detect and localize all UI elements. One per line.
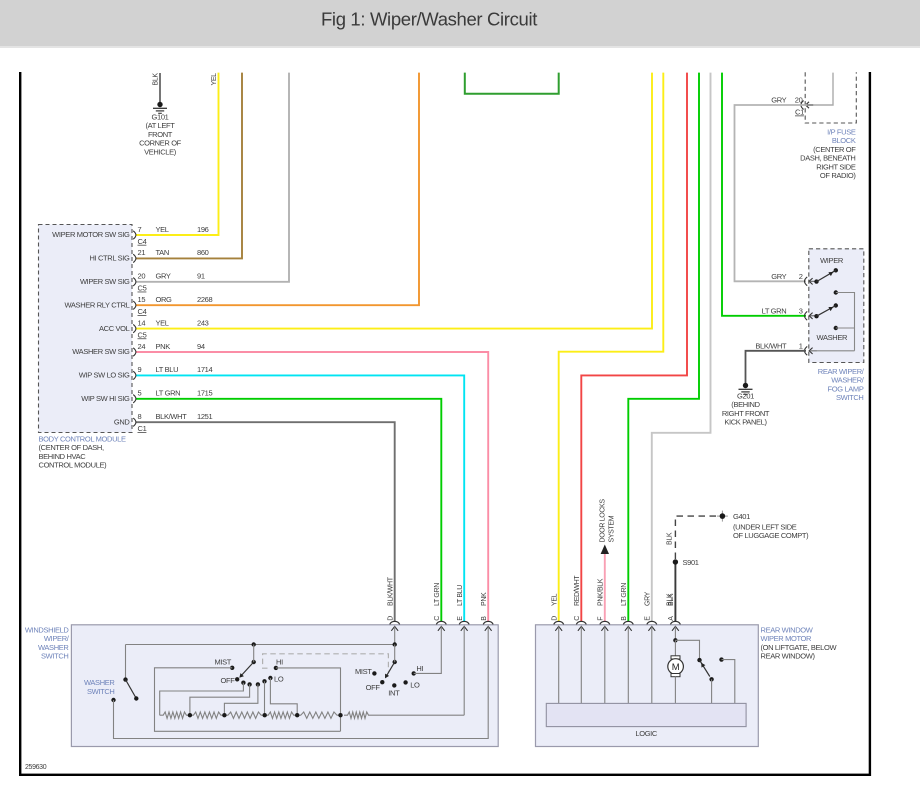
svg-text:E: E [645,616,652,621]
wire GRY inside fuse block [807,73,833,105]
svg-text:G201: G201 [737,392,754,401]
svg-text:BLK: BLK [153,73,160,86]
wire BLK (motor A) [674,562,676,621]
svg-text:WASHER SW SIG: WASHER SW SIG [72,347,130,356]
svg-text:S901: S901 [683,558,699,567]
label BLK [153,73,160,86]
svg-text:3: 3 [799,306,803,315]
wire int contact 2 [190,684,250,715]
svg-text:OFF: OFF [366,683,381,692]
I/P fuse block box [805,72,856,123]
svg-text:PNK: PNK [156,342,171,351]
door locks arrow [601,545,609,555]
label G401 [733,512,809,540]
label BODY CONTROL MODULE [39,435,126,470]
label BLK vertical upper [667,532,674,545]
svg-text:BLK/WHT: BLK/WHT [156,412,188,421]
wire YEL 243 [136,73,652,329]
BCM pin 24 WASHER SW SIG [72,342,205,356]
left switch arm [239,645,256,678]
svg-text:24: 24 [138,342,146,351]
wire chain to pin E [463,626,465,715]
svg-text:INT: INT [388,688,400,697]
svg-text:GRY: GRY [156,272,171,281]
svg-text:OF RADIO): OF RADIO) [820,171,856,180]
ground G201 [739,383,753,395]
motor box pin A [668,593,680,631]
svg-text:7: 7 [138,225,142,234]
svg-text:BEHIND HVAC: BEHIND HVAC [39,452,87,461]
svg-text:MIST: MIST [355,667,372,676]
label WASHER SWITCH [84,678,115,696]
rear switch pin 3 [805,311,817,320]
wire ORG 2268 [136,73,419,306]
svg-text:LT GRN: LT GRN [621,583,628,606]
svg-text:WASHER: WASHER [817,333,848,342]
label I/P FUSE BLOCK [800,128,856,181]
svg-text:OFF: OFF [221,676,236,685]
wire LO contact [270,678,297,715]
rear switch box [809,249,864,363]
svg-text:ORG: ORG [156,295,173,304]
svg-text:LT GRN: LT GRN [156,389,181,398]
resistor R3 [224,712,264,718]
svg-text:(UNDER LEFT SIDE: (UNDER LEFT SIDE [733,523,797,532]
svg-text:C1: C1 [138,424,147,433]
svg-text:ACC VOL: ACC VOL [99,324,130,333]
windshield box pin D [388,576,400,631]
label DOOR LOCKS SYSTEM [600,499,616,543]
label WINDSHIELD WIPER/WASHER SWITCH [25,626,70,661]
label REAR WINDOW WIPER MOTOR [761,626,838,661]
svg-text:B: B [621,616,628,621]
header bar [0,0,920,48]
svg-text:14: 14 [138,318,146,327]
svg-text:2: 2 [799,272,803,281]
wire HI to resistor chain [276,668,341,731]
connector stub (green) [465,73,559,94]
svg-text:SWITCH: SWITCH [87,687,114,696]
motor internal wire pin B [627,626,629,703]
resistor R2 [190,712,225,718]
windshield box pin B [481,592,493,631]
wire int contact 3 [224,684,258,715]
LO contact right [403,680,420,690]
svg-text:WIPER SW SIG: WIPER SW SIG [80,277,130,286]
svg-text:HI: HI [416,664,423,673]
label WASHER [817,333,848,342]
svg-text:M: M [672,662,680,673]
svg-text:G401: G401 [733,512,750,521]
svg-text:1: 1 [799,341,803,350]
motor internal wire pin C [580,626,582,703]
svg-text:(ON LIFTGATE, BELOW: (ON LIFTGATE, BELOW [761,643,838,652]
svg-text:RED/WHT: RED/WHT [574,575,581,606]
label GRY 20 C1 [771,96,804,117]
svg-text:860: 860 [197,248,209,257]
svg-text:REAR WINDOW: REAR WINDOW [761,626,814,635]
ground G101 [153,102,167,114]
wire YEL 196 [136,73,219,235]
BCM pin 14 ACC VOL [99,318,209,339]
svg-text:LOGIC: LOGIC [635,729,658,738]
svg-text:15: 15 [138,295,146,304]
mechanical link (dashed) [263,654,389,672]
park switch arm [700,660,714,681]
wire BLK to G101 [159,73,161,104]
body control module box [39,225,133,433]
motor internal wire pin F [604,626,606,703]
logic block [546,703,746,738]
svg-text:LT GRN: LT GRN [434,583,441,606]
svg-text:OF LUGGAGE COMPT): OF LUGGAGE COMPT) [733,531,809,540]
svg-text:YEL: YEL [211,73,218,86]
svg-text:LO: LO [274,675,284,684]
label LT GRN 3 [762,306,803,315]
svg-text:REAR WINDOW): REAR WINDOW) [761,652,816,661]
washer switch [123,677,138,700]
svg-text:1715: 1715 [197,389,212,398]
wiper switch contacts [814,268,838,284]
OFF contact left [221,676,240,685]
washer upper contact [834,290,855,351]
wire GRY 91 [136,73,289,282]
svg-text:E: E [457,616,464,621]
motor internal wire pin E [651,626,653,703]
svg-text:CORNER OF: CORNER OF [139,139,182,148]
svg-text:(CENTER OF: (CENTER OF [813,145,856,154]
BCM pin 7 WIPER MOTOR SW SIG [52,225,208,246]
svg-text:FRONT: FRONT [148,130,173,139]
svg-text:B: B [481,616,488,621]
svg-text:GRY: GRY [771,272,786,281]
park switch alt contact [719,657,735,703]
wire LT GRN to rear switch pin 3 [722,73,806,316]
windshield box pin E [457,585,469,631]
BCM pin 9 WIP SW LO SIG [79,365,213,379]
svg-text:MIST: MIST [214,658,231,667]
svg-text:2268: 2268 [197,295,212,304]
wire BLK dashed to G401 [675,516,719,559]
svg-text:BLOCK: BLOCK [832,136,856,145]
figure number 259630 [25,764,47,771]
svg-text:KICK PANEL): KICK PANEL) [724,418,767,427]
svg-text:BODY CONTROL MODULE: BODY CONTROL MODULE [39,435,126,444]
svg-text:BLK/WHT: BLK/WHT [755,341,787,350]
svg-text:C: C [574,616,581,621]
svg-text:D: D [552,616,559,621]
washer switch pivot wire [125,645,127,680]
svg-text:259630: 259630 [25,764,47,771]
wire HI right to pin C [414,626,442,673]
wire int contact 1 [160,683,244,716]
rail wire from pin D [126,626,395,644]
svg-text:TAN: TAN [156,248,169,257]
svg-text:WINDSHIELD: WINDSHIELD [25,626,70,635]
svg-text:LT GRN: LT GRN [762,306,787,315]
motor box pin E [645,591,657,630]
wire LT GRN 1715 [136,399,441,621]
svg-text:YEL: YEL [552,593,559,606]
wire inside switch pin1 [810,350,855,352]
svg-text:BLK: BLK [668,593,675,606]
label GRY 2 [771,272,803,281]
svg-text:WIP SW HI SIG: WIP SW HI SIG [81,394,130,403]
wire LT GRN (motor B) [628,73,699,622]
svg-text:C4: C4 [138,237,147,246]
windshield switch box [71,625,498,747]
svg-text:PNK: PNK [481,592,488,606]
HI contact right [412,664,424,676]
svg-text:94: 94 [197,342,205,351]
svg-text:FOG LAMP: FOG LAMP [828,384,864,393]
wire GRY (motor E) [652,73,711,622]
svg-text:196: 196 [197,225,209,234]
svg-text:8: 8 [138,412,142,421]
svg-text:GRY: GRY [645,591,652,606]
svg-text:WASHER/: WASHER/ [831,376,865,385]
wire LT BLU 1714 [136,375,464,621]
BCM pin 20 WIPER SW SIG [80,272,205,293]
washer contact wire to pin B [111,626,488,738]
svg-text:RIGHT SIDE: RIGHT SIDE [816,162,856,171]
svg-text:20: 20 [138,272,146,281]
svg-text:WASHER: WASHER [38,643,69,652]
svg-text:20: 20 [795,96,803,105]
motor internal wire pin D [558,626,560,703]
svg-text:REAR WIPER/: REAR WIPER/ [818,367,865,376]
svg-text:YEL: YEL [156,318,169,327]
HI contact left [274,658,283,671]
svg-text:DOOR LOCKS: DOOR LOCKS [600,499,607,543]
INT contact [388,683,400,697]
svg-text:YEL: YEL [156,225,169,234]
label BLK/WHT 1 [755,341,802,350]
wire GRY fuse to rear switch pin 2 [735,105,808,281]
MIST contact right [355,667,377,676]
svg-text:RIGHT FRONT: RIGHT FRONT [722,409,770,418]
svg-text:C: C [434,616,441,621]
svg-text:WIP SW LO SIG: WIP SW LO SIG [79,371,130,380]
label WIPER [820,256,844,265]
motor box pin F [598,578,610,631]
svg-text:HI CTRL SIG: HI CTRL SIG [89,254,130,263]
svg-text:(AT LEFT: (AT LEFT [145,121,175,130]
wire BLK/WHT to G201 [746,351,807,384]
svg-text:(CENTER OF DASH,: (CENTER OF DASH, [39,443,105,452]
svg-text:1251: 1251 [197,412,212,421]
LO contact left [268,675,284,684]
wire to park switch [675,640,701,662]
svg-text:21: 21 [138,248,146,257]
motor box pin B [621,583,633,631]
svg-text:BLK/WHT: BLK/WHT [388,576,395,606]
resistor R6 [344,712,464,718]
svg-text:A: A [668,616,675,621]
BCM pin 21 HI CTRL SIG [89,248,208,262]
MIST contact left [214,658,234,671]
windshield box pin C [434,583,446,631]
splice S901 [673,558,699,567]
fuse block pin C1 connector [801,101,813,110]
svg-text:9: 9 [138,365,142,374]
washer lower contact [834,326,855,330]
BCM pin 8 GND [114,412,213,433]
svg-text:PNK/BLK: PNK/BLK [598,578,605,606]
svg-text:WIPER/: WIPER/ [44,634,70,643]
washer switch contacts [814,303,838,318]
motor box pin C [574,575,586,631]
svg-text:VEHICLE): VEHICLE) [144,147,177,156]
svg-text:CONTROL MODULE): CONTROL MODULE) [39,461,108,470]
svg-text:1714: 1714 [197,365,212,374]
label BLK vertical lower [667,593,674,606]
svg-text:SWITCH: SWITCH [836,393,863,402]
label G201 [722,392,770,427]
svg-text:C1: C1 [795,108,804,117]
svg-text:C5: C5 [138,284,147,293]
right switch arm [385,645,397,679]
svg-text:WIPER MOTOR: WIPER MOTOR [761,634,813,643]
svg-text:LO: LO [410,681,420,690]
rear switch pin 2 [805,277,817,286]
resistor R1 [160,712,190,718]
svg-text:LT BLU: LT BLU [156,365,179,374]
wire int contact 4 [264,681,266,715]
svg-text:WIPER MOTOR SW SIG: WIPER MOTOR SW SIG [52,230,130,239]
OFF contact right [366,680,385,692]
svg-text:GND: GND [114,417,131,426]
svg-text:HI: HI [276,658,283,667]
svg-text:BLK: BLK [667,532,674,545]
svg-text:91: 91 [197,272,205,281]
BCM pin 15 WASHER RLY CTRL [64,295,212,316]
wire BLK/WHT 1251 [136,422,395,621]
svg-text:5: 5 [138,389,142,398]
motor pin A wire [673,626,677,642]
svg-text:G101: G101 [152,113,169,122]
motor box pin D [552,593,564,630]
resistor chain junction dots [188,713,343,717]
svg-text:GRY: GRY [771,96,786,105]
svg-text:F: F [598,617,605,621]
svg-text:WASHER RLY CTRL: WASHER RLY CTRL [64,300,129,309]
svg-text:D: D [388,616,395,621]
svg-text:C4: C4 [138,307,147,316]
rear motor box [536,625,759,747]
svg-text:SYSTEM: SYSTEM [609,515,616,542]
label REAR WIPER SWITCH [818,367,865,402]
resistor R5 [297,712,340,718]
resistor R4 [265,712,298,718]
svg-text:WASHER: WASHER [84,678,115,687]
wire MIST loop [155,668,341,732]
wire TAN 860 [136,73,242,259]
svg-text:C5: C5 [138,330,147,339]
junction dots on rail [252,642,397,646]
wire RED/WHT (motor C) [581,73,687,622]
rear switch pin 1 [805,346,817,355]
wire PNK 94 [136,352,488,621]
svg-text:243: 243 [197,318,209,327]
wire YEL (motor D) [559,73,664,622]
intermittent contacts [241,679,266,687]
svg-text:(BEHIND: (BEHIND [731,400,760,409]
svg-text:Fig 1: Wiper/Washer Circuit: Fig 1: Wiper/Washer Circuit [321,9,537,30]
svg-text:LT BLU: LT BLU [457,585,464,606]
BCM pin 5 WIP SW HI SIG [81,389,212,403]
svg-text:DASH, BENEATH: DASH, BENEATH [800,154,855,163]
park switch wire down [711,679,713,703]
svg-text:I/P FUSE: I/P FUSE [827,128,856,137]
ground point G401 [717,511,728,522]
wire PNK/BLK to door locks [604,554,606,622]
label YEL vertical [211,73,218,86]
label G101 [139,113,182,157]
svg-text:SWITCH: SWITCH [41,652,68,661]
svg-text:WIPER: WIPER [820,256,844,265]
motor M1 [668,640,684,703]
